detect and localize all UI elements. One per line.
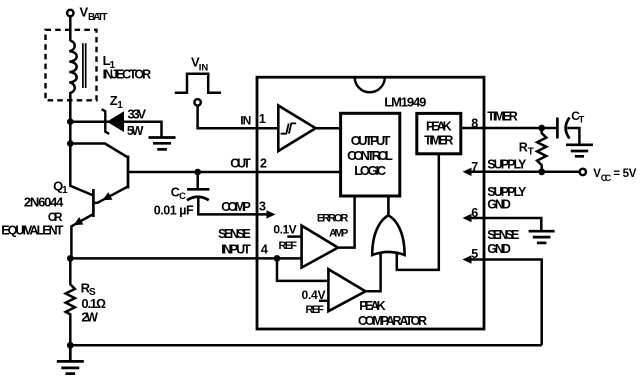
node collector junction <box>67 140 74 147</box>
svg-text:IN: IN <box>240 113 251 127</box>
svg-text:T: T <box>579 114 585 125</box>
ground supply gnd <box>529 231 555 243</box>
inductor core lines <box>83 43 86 88</box>
zener Z1 bar with hooks <box>102 109 110 134</box>
resistor RS <box>66 258 75 345</box>
wire OUT pin2 to Q1 base <box>128 171 340 174</box>
svg-text:REF: REF <box>279 240 298 252</box>
arrow pin3 <box>267 210 276 218</box>
node sense junction <box>274 255 281 262</box>
svg-text:COMP: COMP <box>221 200 250 214</box>
resistor RT <box>537 128 546 172</box>
arrow Q1 driver emitter <box>103 192 113 200</box>
wire VBATT down to L1 <box>69 16 72 41</box>
svg-text:7: 7 <box>471 160 478 174</box>
wire bottom sense gnd run <box>70 344 541 347</box>
IC notch <box>355 77 385 92</box>
wire zener to ground <box>70 122 161 137</box>
wire comparator to or-gate <box>366 253 381 292</box>
op-amp schmitt buffer <box>278 106 315 152</box>
svg-text:AMP: AMP <box>329 228 348 240</box>
or-gate <box>372 196 404 256</box>
svg-text:REF: REF <box>306 304 325 316</box>
node Rs top <box>67 255 74 262</box>
arrow pin5 <box>471 258 484 261</box>
svg-text:5: 5 <box>471 247 478 261</box>
svg-text:2N6044: 2N6044 <box>24 195 64 210</box>
svg-text:OR: OR <box>48 212 63 224</box>
svg-text:8: 8 <box>471 116 478 130</box>
svg-text:LOGIC: LOGIC <box>354 163 386 178</box>
capacitor CT <box>556 118 559 139</box>
svg-text:TIMER: TIMER <box>487 110 518 124</box>
transistor Q1 output collector wire <box>70 144 93 196</box>
svg-text:1: 1 <box>259 112 266 126</box>
svg-text:4: 4 <box>261 243 268 257</box>
IC LM1949 box U1 <box>257 77 484 329</box>
svg-text:6: 6 <box>471 206 478 220</box>
svg-text:2: 2 <box>260 157 267 171</box>
svg-text:PEAK: PEAK <box>359 299 385 313</box>
svg-text:0.1Ω: 0.1Ω <box>81 296 106 311</box>
svg-text:SENSE: SENSE <box>487 228 519 242</box>
capacitor CC top stem <box>196 172 199 188</box>
transistor Q1 driver collector wire <box>70 144 128 158</box>
svg-text:INJECTOR: INJECTOR <box>103 67 152 81</box>
svg-text:3: 3 <box>259 200 266 214</box>
arrow pin7 <box>463 168 472 176</box>
svg-text:SENSE: SENSE <box>218 227 251 241</box>
svg-text:LM1949: LM1949 <box>384 95 426 110</box>
transistor Q1 driver base bar <box>127 156 130 189</box>
svg-text:GND: GND <box>487 197 511 211</box>
svg-text:SUPPLY: SUPPLY <box>487 157 527 171</box>
ground for Z1 <box>149 138 176 150</box>
svg-text:OUTPUT: OUTPUT <box>351 133 391 148</box>
wire schmitt to logic box <box>316 127 340 130</box>
wire 0.4V ref to comparator <box>319 300 328 303</box>
svg-text:= 5V: = 5V <box>613 168 636 180</box>
node VIN terminal <box>194 99 200 105</box>
node CC junction <box>194 169 201 176</box>
wire VIN to pin1 <box>198 106 279 129</box>
arrow pin6 <box>471 217 484 220</box>
svg-text:33V: 33V <box>128 107 147 122</box>
wire pin8 timer <box>461 127 558 130</box>
svg-text:C: C <box>179 191 186 202</box>
node supply junction <box>538 168 545 175</box>
svg-text:BATT: BATT <box>88 12 108 23</box>
wire pin5 sense gnd <box>484 260 542 346</box>
wire CT to ground <box>567 128 579 145</box>
svg-text:COMPARATOR: COMPARATOR <box>358 314 427 328</box>
ground CT <box>566 145 593 157</box>
wire sense line pin4 <box>70 257 302 260</box>
transistor Q1 driver emitter <box>93 187 128 203</box>
node VCC terminal <box>580 169 586 175</box>
wire peak timer to or-gate <box>397 154 439 270</box>
box OUTPUT CONTROL LOGIC <box>341 113 400 196</box>
svg-text:OUT: OUT <box>230 157 251 171</box>
svg-text:0.1V: 0.1V <box>273 223 296 237</box>
VIN pulse symbol <box>175 74 221 93</box>
wire 0.1V ref to error amp <box>287 235 301 238</box>
transistor Q1 output emitter <box>71 214 93 258</box>
wire COMP pin3 <box>198 197 267 214</box>
ground main <box>57 345 84 373</box>
svg-text:2W: 2W <box>81 310 98 324</box>
svg-text:GND: GND <box>487 242 511 256</box>
comparator peak <box>328 269 365 311</box>
wire pin7 supply <box>471 171 579 174</box>
inductor L1 <box>69 41 76 93</box>
svg-text:CONTROL: CONTROL <box>347 148 393 163</box>
svg-text:CC: CC <box>601 173 612 183</box>
zener Z1 triangle <box>108 112 124 131</box>
wire L1 to zener node <box>69 92 72 144</box>
svg-text:IN: IN <box>199 62 209 73</box>
node zener junction <box>67 118 74 125</box>
transistor Q1 output base bar <box>92 189 95 217</box>
svg-text:1: 1 <box>117 100 123 111</box>
svg-text:ERROR: ERROR <box>317 213 348 225</box>
svg-text:0.01 µF: 0.01 µF <box>154 204 194 218</box>
svg-text:0.4V: 0.4V <box>302 288 326 302</box>
node VBATT terminal <box>67 10 73 16</box>
svg-text:INPUT: INPUT <box>221 242 251 256</box>
svg-text:EQUIVALENT: EQUIVALENT <box>1 223 64 237</box>
svg-text:TIMER: TIMER <box>424 133 453 147</box>
dashed box around injector <box>46 30 97 101</box>
box PEAK TIMER <box>417 113 461 153</box>
node timer junction <box>538 125 545 132</box>
error amp U-A <box>302 226 338 268</box>
arrow Q1 output emitter <box>74 217 84 225</box>
wire sense to comparator <box>277 258 328 281</box>
node Rs bottom <box>67 342 74 349</box>
wire pin6 to ground <box>484 218 541 231</box>
svg-text:T: T <box>528 146 534 157</box>
svg-text:PEAK: PEAK <box>426 119 452 133</box>
wire error amp output <box>338 196 355 248</box>
svg-text:5W: 5W <box>127 124 144 138</box>
schmitt symbol glyph <box>281 123 297 133</box>
capacitor CC plates <box>187 189 209 200</box>
svg-text:R: R <box>519 141 528 155</box>
